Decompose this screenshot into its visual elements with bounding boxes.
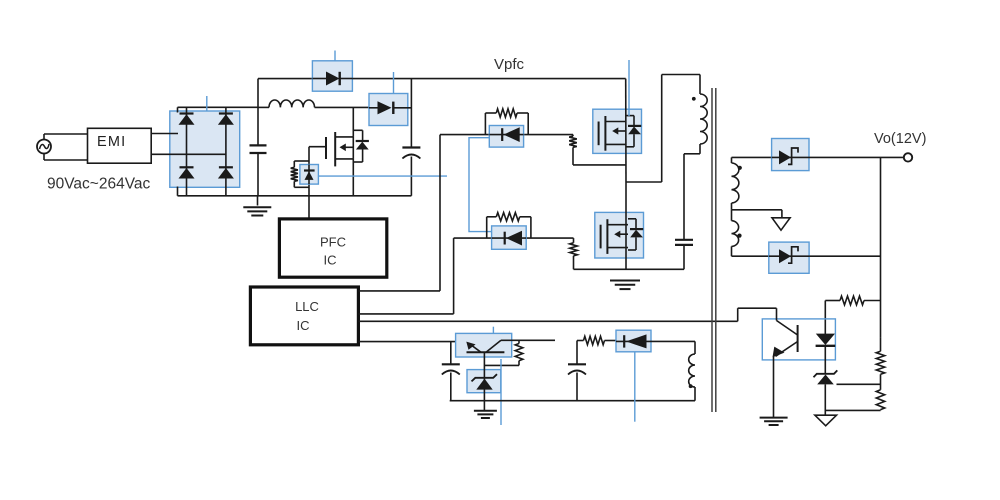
wire mid node (626, 75, 700, 183)
center tap ground triangle (772, 218, 790, 230)
wire bus riser (257, 79, 259, 146)
bypass diode (312, 72, 352, 86)
wire boost output riser (410, 79, 412, 148)
blue stub above bridge (206, 96, 208, 111)
wire emi-to-bridge bottom (151, 153, 226, 155)
resistor R9 (484, 340, 522, 365)
svg-text:IC: IC (324, 253, 337, 268)
opto LED (816, 334, 836, 374)
wire LLC out3 (358, 320, 737, 322)
center tap wire (732, 210, 782, 218)
wire divider ref (837, 383, 881, 385)
boost diode box (369, 94, 408, 126)
wire ac-to-emi top (44, 134, 88, 140)
wire LED column (824, 301, 826, 335)
wire SR1 to output (809, 156, 881, 158)
resistor R4 (LS drive) (487, 213, 531, 239)
svg-text:IC: IC (297, 318, 310, 333)
bridge diode D4 (218, 167, 234, 178)
output terminal (881, 153, 913, 161)
bridge bottom rail (178, 187, 412, 196)
Vpfc rail left (258, 78, 312, 80)
wire ac-to-emi bottom (44, 154, 88, 161)
resistor R8 (divider bottom) (876, 390, 884, 411)
boost inductor (258, 100, 369, 107)
svg-text:PFC: PFC (320, 235, 346, 250)
zener D5 (TL431) (814, 370, 838, 415)
aux winding (689, 354, 695, 401)
capacitor C3 (resonant) (675, 240, 693, 245)
svg-text:Vpfc: Vpfc (494, 56, 525, 73)
capacitor C4 (442, 342, 460, 401)
svg-text:LLC: LLC (295, 299, 319, 314)
secondary ground rail (450, 400, 695, 402)
bridge left leg (186, 107, 188, 196)
ground (bridge) (243, 196, 271, 216)
blue sense line (318, 175, 447, 177)
resistor R5 (LS gate) (570, 238, 578, 269)
resistor R7 (divider top) (876, 338, 884, 390)
zener D6 (472, 374, 498, 389)
LS drive diode box (492, 226, 527, 249)
wire LLC out4 (358, 341, 467, 343)
resistor R3 (HS gate) (569, 135, 577, 165)
capacitor C5 (aux) (568, 341, 586, 401)
wire C2 to rail (410, 157, 412, 196)
wire LS source rail (574, 268, 685, 270)
bridge diode D1 (179, 114, 195, 125)
boost diode (369, 101, 411, 114)
Vpfc rail right (352, 78, 625, 80)
wire drain riser (352, 107, 354, 136)
primary winding (700, 75, 707, 154)
wire divider bottom (825, 409, 880, 411)
ground (half-bridge) (610, 281, 640, 290)
wire emi-to-bridge top (151, 133, 178, 135)
transformer core (712, 88, 716, 412)
wire HS gate (440, 134, 573, 136)
blue stub above boost diode (393, 72, 395, 94)
wire zener column (483, 352, 485, 411)
sense diode box (300, 165, 319, 185)
transistor Q3 box (LS MOSFET) (595, 212, 644, 258)
blue stub below aux diode (634, 352, 636, 422)
wire photo collector (501, 339, 555, 341)
blue link gate drives (469, 138, 492, 232)
wire SR2 to output (809, 255, 880, 257)
HS drive diode (489, 127, 523, 142)
wire C1 to rail (257, 153, 259, 196)
SR diode box 2 (769, 242, 809, 273)
ground (opto emitter) (760, 418, 788, 425)
bridge diode D3 (179, 167, 195, 178)
label Vo(12V) (874, 131, 926, 147)
zener box (467, 370, 501, 393)
bridge top rail (178, 107, 259, 112)
aux diode D7 (616, 334, 651, 348)
opto phototransistor (secondary) (773, 321, 798, 358)
resistor R1 (sense) (291, 161, 309, 187)
photo transistor (466, 340, 504, 352)
secondary dot 1 (738, 166, 742, 170)
wire winding2 to SR2 (732, 255, 769, 257)
svg-text:Vo(12V): Vo(12V) (874, 131, 926, 147)
wire opto collector (738, 308, 777, 321)
bridge diode D2 (218, 114, 234, 125)
transistor Q1 (PFC MOSFET) (309, 130, 369, 166)
ground triangle (TL431) (815, 415, 837, 426)
wire winding1 to SR1 (732, 156, 772, 158)
secondary winding 1 (732, 157, 739, 209)
SR diode box 1 (772, 139, 809, 171)
wire LS gate (454, 237, 574, 239)
label 90Vac~264Vac (47, 176, 151, 193)
photo transistor box (456, 333, 512, 357)
SR diode 1 (772, 148, 809, 164)
PFC IC box (279, 219, 386, 277)
ground (zener) (474, 411, 497, 418)
aux dot (689, 384, 693, 388)
capacitor C1 (250, 145, 267, 153)
ac source (37, 140, 51, 154)
blue stub above bypass diode (334, 51, 336, 61)
bridge rectifier box (170, 111, 240, 187)
SR diode 2 (769, 247, 809, 263)
wire gate column (308, 147, 310, 219)
label Vpfc (494, 56, 525, 73)
bridge right leg (225, 107, 227, 196)
wire HS gate to source (573, 164, 626, 166)
output bus (880, 157, 882, 337)
half-bridge mid riser (625, 182, 627, 269)
EMI filter box (88, 128, 152, 163)
bypass diode box (312, 61, 352, 91)
transistor Q2 (HS MOSFET) (599, 116, 642, 151)
svg-text:90Vac~264Vac: 90Vac~264Vac (47, 176, 151, 193)
half-bridge rail riser (625, 79, 627, 182)
resistor R6 (LED series) (825, 296, 880, 305)
blue stub above photo box (492, 327, 494, 334)
resistor R10 (aux) (577, 336, 616, 344)
wire opto emitter (773, 357, 775, 418)
HS drive diode box (489, 126, 523, 148)
sense diode (304, 165, 315, 185)
blue stub above Q2 (628, 60, 630, 116)
wire aux diode to winding (651, 341, 695, 354)
resistor R2 (HS drive) (485, 109, 528, 135)
LS drive diode (492, 231, 527, 246)
LLC IC box (250, 287, 358, 345)
transistor Q3 (LS MOSFET) (601, 219, 644, 254)
capacitor C2 (PFC bulk) (402, 148, 420, 159)
optocoupler box (secondary) (762, 319, 835, 360)
secondary winding 2 (732, 210, 739, 256)
blue stub below zener box (500, 359, 502, 425)
wire C3 to rail (683, 245, 685, 269)
wire LLC out1 (358, 135, 440, 291)
wire LLC out2 (358, 238, 453, 314)
svg-text:EMI: EMI (97, 134, 126, 150)
primary dot (692, 97, 696, 101)
wire primary to cap (684, 154, 700, 240)
secondary dot 2 (737, 234, 741, 238)
wire Q1 source (352, 159, 354, 196)
aux diode box (616, 330, 651, 352)
transistor Q2 box (HS MOSFET) (593, 109, 642, 153)
